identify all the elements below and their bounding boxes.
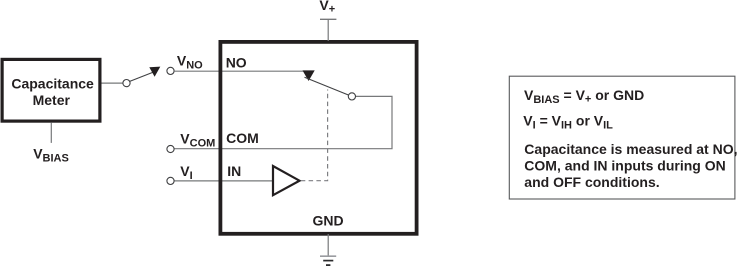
svg-text:Capacitance is measured at NO,: Capacitance is measured at NO, [524,141,737,157]
switch arm (external) [130,72,153,81]
svg-text:NO: NO [226,55,247,71]
power V+ T-bar [320,18,336,20]
node VNO terminal circle [167,67,174,74]
ic box U1 [220,42,416,234]
wire meter bias stem [50,123,52,143]
switch arrowhead (internal NO contact) [303,70,315,81]
node VI terminal circle [167,177,174,184]
buffer driver (IN) [273,166,300,195]
switch pole circle (internal) [348,93,355,100]
wire IN [174,180,273,182]
svg-text:COM, and IN inputs during ON: COM, and IN inputs during ON [524,158,725,174]
svg-text:GND: GND [312,213,343,229]
switch arrowhead (external) [149,67,160,77]
svg-text:Capacitance: Capacitance [11,75,94,91]
ground bar 2 [323,260,333,262]
ground bar 1 [320,255,336,257]
switch arm (internal) [305,77,349,95]
power V+ stem [327,19,329,41]
switch pole circle (external) [123,80,130,87]
svg-text:COM: COM [226,130,259,146]
ground stem [327,234,329,256]
node VCOM terminal circle [167,145,174,152]
svg-text:Meter: Meter [33,92,71,108]
note box [509,76,735,199]
svg-text:and OFF conditions.: and OFF conditions. [524,174,659,190]
wire NO [174,70,308,72]
wire meter to switch [102,82,124,84]
ground bar 3 [326,264,330,266]
svg-text:IN: IN [227,163,241,179]
wire COM route [174,96,392,148]
dashed control link [301,90,328,181]
capacitance meter box [2,59,100,121]
